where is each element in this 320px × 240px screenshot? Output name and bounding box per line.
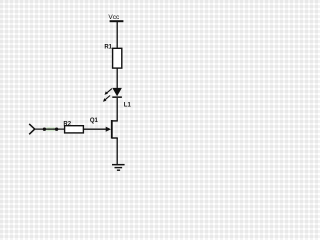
svg-text:R2: R2 — [63, 122, 71, 128]
LED L1 — [103, 88, 131, 108]
wire input to R2 — [35, 128, 65, 130]
svg-text:L1: L1 — [124, 102, 132, 108]
svg-text:Vcc: Vcc — [108, 14, 120, 21]
svg-text:R1: R1 — [104, 45, 112, 51]
resistor R1 — [104, 45, 121, 69]
resistor R2 — [63, 122, 83, 133]
wire Vcc to R1 — [116, 22, 118, 49]
wire Q1 emitter to ground — [116, 138, 118, 165]
svg-text:Q1: Q1 — [90, 118, 99, 124]
junction dot — [55, 128, 58, 131]
power Vcc — [108, 14, 123, 22]
input terminal — [29, 124, 35, 134]
transistor Q1 — [84, 118, 118, 138]
junction dot — [43, 128, 46, 131]
ground — [112, 164, 125, 171]
wire segment (green highlight) — [46, 127, 56, 131]
wire R1 to L1 — [116, 68, 118, 88]
wire L1 to Q1 collector — [116, 98, 118, 121]
